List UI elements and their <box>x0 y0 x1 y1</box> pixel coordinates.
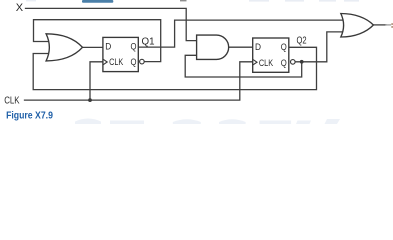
svg-text:Q: Q <box>131 57 137 67</box>
svg-text:CLK: CLK <box>109 57 123 67</box>
svg-text:D: D <box>255 42 261 52</box>
svg-text:Q: Q <box>281 42 287 52</box>
svg-text:Q2: Q2 <box>297 35 307 46</box>
svg-text:Q: Q <box>131 42 137 52</box>
svg-text:Q: Q <box>281 58 287 68</box>
svg-text:D: D <box>105 42 111 52</box>
svg-text:Figure X7.9: Figure X7.9 <box>6 110 53 121</box>
svg-text:Q1: Q1 <box>142 36 155 47</box>
svg-text:CLK: CLK <box>259 58 273 68</box>
svg-text:X: X <box>16 2 24 14</box>
svg-text:CLK: CLK <box>4 96 20 107</box>
